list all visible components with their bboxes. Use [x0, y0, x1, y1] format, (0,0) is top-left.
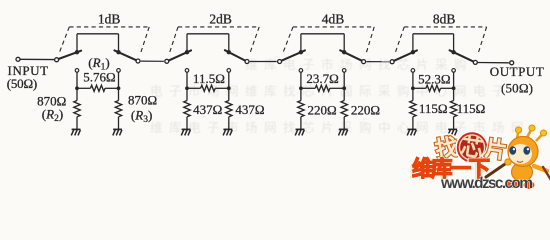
wire S2 bypass left drop: [186, 34, 188, 52]
svg-text:5.76Ω: 5.76Ω: [83, 69, 115, 84]
wire stage 2 to stage 3: [250, 61, 277, 63]
switch S2 gang box dashed right side: [250, 27, 259, 54]
svg-text:437Ω: 437Ω: [235, 102, 264, 117]
wire S1 contact B to node: [118, 72, 120, 88]
switch S4 pole B pivot: [473, 60, 477, 64]
switch S3 lower contact A: [299, 69, 303, 73]
switch S1 lever B: [115, 50, 136, 60]
node S4 right junction: [452, 86, 456, 90]
svg-text:4dB: 4dB: [322, 12, 345, 27]
node S1 right junction: [117, 86, 121, 90]
svg-text:220Ω: 220Ω: [308, 102, 337, 117]
wire shunt left lower lead S2: [186, 117, 188, 130]
switch S1 lower contact B: [117, 69, 121, 73]
wire S1 bypass right drop: [118, 34, 120, 52]
switch S2 lower contact A: [185, 69, 189, 73]
switch S3 pole A pivot: [278, 60, 282, 64]
svg-text:(50Ω): (50Ω): [501, 81, 533, 96]
wire S4 bypass right drop: [453, 34, 455, 52]
decorative faint scan watermark rows: [150, 57, 530, 135]
resistor series 5.76&#937; S1: [90, 85, 105, 91]
wire S3 contact B to node: [343, 72, 345, 88]
resistor series 23.7&#937; S3: [315, 85, 330, 91]
watermark dzsc.com logo: [410, 125, 550, 192]
wire S4 contact A to node: [412, 72, 414, 88]
switch S1 pole B pivot: [136, 59, 140, 63]
switch S3 upper contact B: [342, 50, 346, 54]
svg-text:52.3Ω: 52.3Ω: [418, 71, 450, 86]
wire S1 bypass left drop: [76, 34, 78, 52]
wire shunt right lower lead S1: [118, 117, 120, 130]
wire shunt left upper lead S2: [186, 88, 188, 100]
wire S4 contact B to node: [453, 72, 455, 88]
switch S2 lever B: [225, 50, 245, 60]
svg-text:1dB: 1dB: [98, 12, 121, 27]
svg-text:220Ω: 220Ω: [351, 102, 380, 117]
node S2 left junction: [185, 86, 189, 90]
wire S3 bypass top: [301, 33, 344, 35]
switch S4 lower contact A: [411, 69, 415, 73]
switch S4 upper contact A: [411, 50, 415, 54]
resistor shunt left 437&#937; S2: [184, 101, 190, 117]
svg-text:870Ω: 870Ω: [128, 93, 157, 108]
node S2 right junction: [227, 86, 231, 90]
terminal INPUT: [16, 57, 20, 61]
switch S1 upper contact A: [75, 50, 79, 54]
switch S4 upper contact B: [451, 50, 455, 54]
resistor shunt left 220&#937; S3: [298, 101, 304, 117]
ground S4 left: [408, 128, 417, 130]
switch S3 lever A: [282, 50, 305, 60]
switch S3 gang box dashed left side: [283, 27, 293, 54]
wire shunt left upper lead S4: [412, 88, 414, 100]
switch S1 upper contact B: [116, 50, 120, 54]
wire S2 contact A to node: [186, 72, 188, 88]
switch S3 gang box dashed right side: [366, 27, 374, 54]
resistor shunt right 115&#937; S4: [450, 101, 456, 117]
wire series resistor lead left S4: [413, 87, 426, 89]
wire shunt right lower lead S2: [228, 117, 230, 130]
svg-text:(50Ω): (50Ω): [7, 76, 38, 91]
terminal OUTPUT: [510, 61, 514, 65]
switch S1 lever A: [59, 51, 81, 59]
resistor shunt right 220&#937; S3: [341, 101, 347, 117]
ground S1 right: [113, 128, 122, 130]
wire shunt right upper lead S3: [343, 88, 345, 100]
wire S4 pole B to OUTPUT: [478, 62, 510, 64]
switch S2 upper contact B: [227, 50, 231, 54]
resistor series 11.5&#937; S2: [201, 85, 216, 91]
wire shunt left upper lead S3: [300, 88, 302, 100]
switch S1 gang box dashed right side: [141, 27, 150, 54]
wire S2 bypass top: [187, 33, 229, 35]
resistor shunt right 870&#937; S1: [115, 101, 121, 117]
switch S4 lever A: [394, 50, 417, 60]
resistor shunt right 437&#937; S2: [226, 101, 232, 117]
wire series resistor lead right S2: [215, 87, 229, 89]
wire S1 bypass top: [77, 33, 119, 35]
switch S3 lever B: [340, 50, 361, 60]
wire series resistor lead left S1: [77, 87, 91, 89]
wire series resistor lead right S3: [330, 87, 344, 89]
resistor series 52.3&#937; S4: [426, 85, 441, 91]
node S4 left junction: [411, 86, 415, 90]
wire shunt right upper lead S1: [118, 88, 120, 100]
switch S4 gang box dashed right side: [478, 27, 487, 54]
switch S4 lower contact B: [452, 69, 456, 73]
svg-text:(R3): (R3): [131, 108, 152, 126]
wire shunt left upper lead S1: [76, 88, 78, 100]
switch S2 gang box dashed top edge (2dB): [178, 26, 259, 28]
switch S2 pole B pivot: [245, 60, 249, 64]
wire shunt right upper lead S2: [228, 88, 230, 100]
wire stage 1 to stage 2: [141, 60, 164, 62]
wire series resistor lead right S1: [105, 87, 119, 89]
node S3 left junction: [299, 86, 303, 90]
switch S3 upper contact A: [299, 50, 303, 54]
svg-text:115Ω: 115Ω: [457, 101, 486, 116]
switch S3 pole B pivot: [362, 60, 366, 64]
wire series resistor lead right S4: [441, 87, 454, 89]
ground S2 right: [223, 128, 232, 130]
wire series resistor lead left S3: [301, 87, 315, 89]
svg-text:(R2): (R2): [42, 107, 63, 125]
wire S3 contact A to node: [300, 72, 302, 88]
ground S4 right: [448, 128, 457, 130]
wire shunt right upper lead S4: [453, 88, 455, 100]
wire stage 3 to stage 4: [367, 61, 390, 63]
wire input to S1 pole A: [20, 58, 54, 60]
ground S3 right: [339, 128, 348, 130]
svg-text:OUTPUT: OUTPUT: [490, 64, 544, 79]
wire series resistor lead left S2: [187, 87, 201, 89]
switch S4 gang box dashed left side: [395, 27, 404, 54]
svg-text:www.dzsc.com: www.dzsc.com: [440, 175, 533, 192]
wire shunt right lower lead S3: [343, 117, 345, 130]
switch S2 pole A pivot: [165, 59, 169, 63]
resistor shunt left 115&#937; S4: [410, 101, 416, 117]
ground S3 left: [296, 128, 305, 130]
switch S2 gang box dashed left side: [169, 27, 178, 54]
wire shunt left lower lead S4: [412, 117, 414, 130]
wire shunt left lower lead S1: [76, 117, 78, 130]
wire S2 contact B to node: [228, 72, 230, 88]
wire S4 bypass top: [413, 33, 454, 35]
wire shunt left lower lead S3: [300, 117, 302, 130]
wire S1 contact A to node: [76, 72, 78, 88]
switch S4 lever B: [450, 50, 474, 61]
ground S1 left: [72, 128, 81, 130]
svg-text:8dB: 8dB: [433, 12, 456, 27]
svg-text:11.5Ω: 11.5Ω: [193, 71, 225, 86]
switch S2 lower contact B: [227, 69, 231, 73]
svg-text:23.7Ω: 23.7Ω: [306, 71, 338, 86]
switch S3 gang box dashed top edge (4dB): [293, 26, 374, 28]
svg-text:2dB: 2dB: [209, 12, 232, 27]
switch S1 pole A pivot: [55, 58, 59, 62]
switch S2 upper contact A: [185, 50, 189, 54]
resistor shunt left 870&#937; S1: [74, 101, 80, 117]
node S3 right junction: [342, 86, 346, 90]
switch S1 lower contact A: [75, 69, 79, 73]
wire S3 bypass right drop: [343, 34, 345, 52]
wire S3 bypass left drop: [300, 34, 302, 52]
switch S3 lower contact B: [342, 69, 346, 73]
switch S2 lever A: [169, 50, 191, 60]
ground S2 left: [182, 128, 191, 130]
wire S4 bypass left drop: [412, 34, 414, 52]
switch S4 gang box dashed top edge (8dB): [404, 26, 486, 28]
wire shunt right lower lead S4: [453, 117, 455, 130]
switch S4 pole A pivot: [390, 60, 394, 64]
switch S1 gang box dashed left side: [59, 27, 69, 54]
switch S1 gang box dashed top edge (1dB): [69, 26, 149, 28]
wire S2 bypass right drop: [228, 34, 230, 52]
svg-text:115Ω: 115Ω: [419, 101, 448, 116]
svg-text:437Ω: 437Ω: [193, 102, 222, 117]
node S1 left junction: [75, 86, 79, 90]
